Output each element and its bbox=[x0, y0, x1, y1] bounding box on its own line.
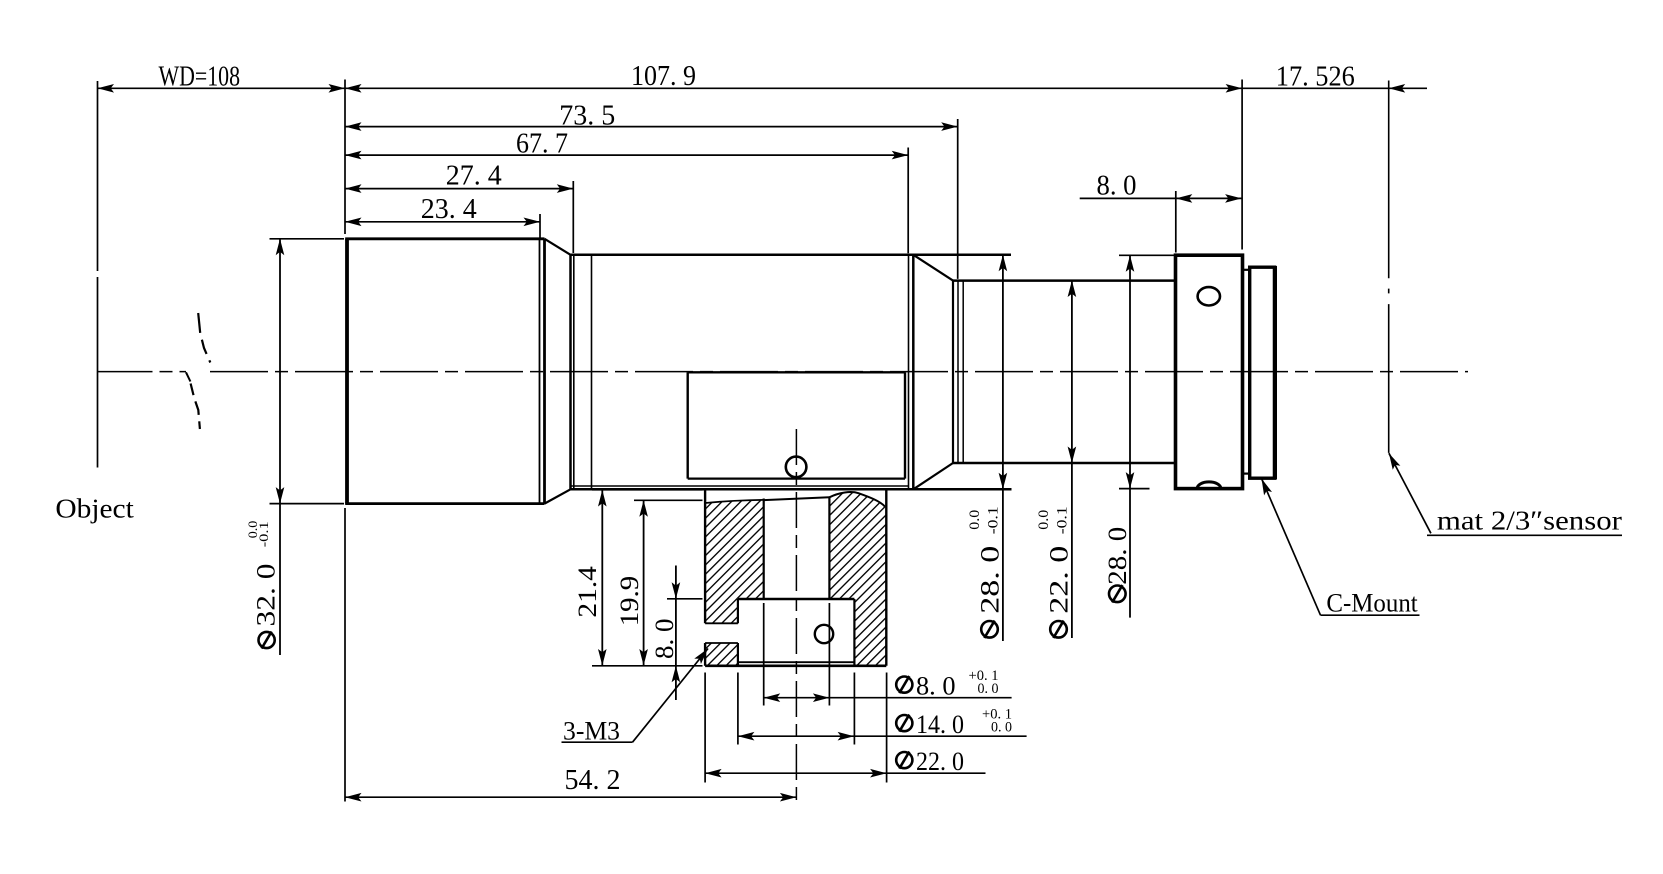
svg-text:-0.1: -0.1 bbox=[985, 506, 1001, 534]
dimension 17.526 bbox=[1242, 87, 1427, 89]
ext line boss left bbox=[704, 673, 706, 783]
hatched section areas bbox=[705, 500, 764, 599]
svg-text:22. 0: 22. 0 bbox=[916, 747, 964, 776]
object plane line lower bbox=[97, 277, 99, 468]
svg-text:23. 4: 23. 4 bbox=[421, 193, 477, 225]
horizontal optical axis centerline bbox=[210, 371, 1468, 373]
dimension 107.9 bbox=[345, 87, 1242, 89]
ext line O8 left bbox=[763, 603, 765, 706]
svg-text:0. 0: 0. 0 bbox=[991, 719, 1012, 735]
svg-text:3-M3: 3-M3 bbox=[563, 717, 620, 746]
svg-text:mat 2/3″sensor: mat 2/3″sensor bbox=[1437, 506, 1622, 536]
svg-text:8. 0: 8. 0 bbox=[1097, 169, 1137, 201]
svg-text:0. 0: 0. 0 bbox=[978, 681, 999, 697]
svg-text:-0.1: -0.1 bbox=[1055, 506, 1071, 534]
O14 counterbore top edge bbox=[738, 598, 855, 600]
dimension 21.4 bbox=[601, 490, 603, 666]
ext line O14 left bbox=[737, 673, 739, 745]
thumbscrew circle on barrel bbox=[786, 457, 807, 478]
chamfer front-to-mid bottom bbox=[545, 489, 571, 503]
ext line lens front bottom (54.2) bbox=[344, 508, 346, 802]
boss top intersection arc right bbox=[829, 492, 884, 506]
dimension 23.4 bbox=[345, 221, 540, 223]
dimension 19.9 bbox=[643, 500, 645, 665]
svg-text:-0.1: -0.1 bbox=[256, 521, 271, 547]
C-mount thread section bbox=[1250, 267, 1275, 478]
boss vertical centerline bbox=[795, 429, 797, 807]
C-mount flange ring bbox=[1176, 255, 1243, 488]
rear barrel section (O22) bbox=[953, 279, 1176, 282]
leader C-Mount bbox=[1262, 479, 1321, 616]
counterbore back bottom edge bbox=[738, 661, 855, 663]
O8 hole top edge bbox=[764, 497, 830, 500]
ext line 27.4 bbox=[572, 181, 574, 253]
boss bottom face bbox=[705, 664, 886, 667]
svg-text:0.0: 0.0 bbox=[1036, 510, 1052, 530]
dimension 67.7 bbox=[345, 154, 908, 156]
sensor plane line bbox=[1388, 81, 1390, 453]
ext line 23.4 bbox=[539, 214, 541, 238]
ext line O14 right bbox=[853, 673, 855, 745]
horizontal optical axis centerline left of break bbox=[98, 371, 187, 373]
ext line lens front top bbox=[344, 80, 346, 235]
lens barrel front section (O32) bbox=[345, 239, 349, 504]
O8 hole walls bbox=[763, 499, 765, 600]
break symbol jog bbox=[186, 372, 190, 381]
leader sensor bbox=[1389, 453, 1431, 533]
object plane line upper bbox=[97, 81, 99, 271]
flange set-screw hole top bbox=[1198, 287, 1220, 305]
svg-text:14. 0: 14. 0 bbox=[916, 710, 964, 739]
dimension 8.0 boss bbox=[675, 566, 677, 701]
dimension 8.0 top bbox=[1080, 197, 1242, 199]
mounting boss left wall bbox=[704, 489, 706, 623]
dimension O8.0 bbox=[764, 697, 1012, 699]
svg-text:54. 2: 54. 2 bbox=[565, 764, 621, 796]
dimension O28.0 mid bbox=[1002, 255, 1004, 641]
mounting boss right wall bbox=[885, 489, 887, 666]
svg-text:C-Mount: C-Mount bbox=[1326, 588, 1418, 617]
svg-text:19.9: 19.9 bbox=[615, 576, 644, 627]
svg-text:67. 7: 67. 7 bbox=[516, 127, 568, 159]
ext line 73.5 bbox=[957, 119, 959, 279]
dimension O22.0 boss bbox=[705, 772, 985, 774]
ext line O8 right bbox=[828, 603, 830, 706]
flange set-screw hole bottom (partial) bbox=[1197, 482, 1221, 488]
ext line boss right bbox=[886, 673, 888, 783]
relief ring groove bbox=[1243, 269, 1250, 271]
ext line flange right bbox=[1241, 80, 1243, 250]
dimension O28.0 flange bbox=[1129, 255, 1131, 617]
svg-text:22. 0: 22. 0 bbox=[1044, 546, 1073, 614]
dimension O22.0 bbox=[1071, 281, 1073, 639]
dimension 73.5 bbox=[345, 126, 958, 128]
svg-text:32. 0: 32. 0 bbox=[252, 564, 281, 627]
focus/iris window rectangle bbox=[688, 371, 905, 373]
boss top intersection curve left bbox=[705, 500, 764, 503]
svg-text:28. 0: 28. 0 bbox=[1103, 527, 1132, 585]
break symbol upper stroke bbox=[198, 313, 210, 363]
svg-text:27. 4: 27. 4 bbox=[446, 160, 502, 192]
svg-text:Object: Object bbox=[55, 494, 134, 524]
mid barrel section (O28) bbox=[571, 254, 1012, 257]
break symbol lower stroke bbox=[191, 384, 200, 430]
chamfer front-to-mid top bbox=[545, 239, 571, 255]
M3 hole in counterbore back wall bbox=[815, 625, 833, 643]
svg-text:28. 0: 28. 0 bbox=[975, 546, 1004, 614]
svg-text:107. 9: 107. 9 bbox=[631, 60, 696, 92]
svg-text:8. 0: 8. 0 bbox=[916, 671, 956, 700]
leader 3-M3 bbox=[562, 741, 633, 743]
svg-text:8. 0: 8. 0 bbox=[650, 619, 679, 660]
chamfer mid-to-rear bottom bbox=[913, 463, 953, 489]
svg-text:17. 526: 17. 526 bbox=[1276, 60, 1355, 92]
dimension 54.2 bbox=[345, 796, 796, 798]
ext line 8.0 left bbox=[1175, 191, 1177, 253]
svg-text:21.4: 21.4 bbox=[573, 566, 602, 618]
svg-text:WD=108: WD=108 bbox=[159, 60, 241, 92]
dimension 27.4 bbox=[345, 188, 573, 190]
M3 slot in left wall bbox=[705, 622, 738, 624]
dimension O32.0 bbox=[279, 239, 281, 655]
dimension O14.0 bbox=[738, 735, 1027, 737]
O14 counterbore walls bbox=[737, 599, 739, 623]
dimension WD=108 bbox=[98, 87, 346, 89]
ext line 67.7 bbox=[907, 148, 909, 254]
svg-text:0.0: 0.0 bbox=[967, 510, 983, 530]
chamfer mid-to-rear top bbox=[913, 255, 953, 281]
